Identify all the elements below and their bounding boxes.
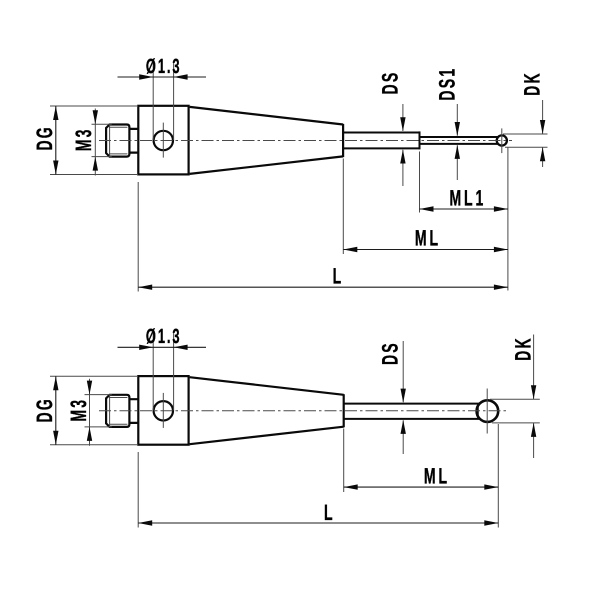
main horizontal centerline: [99, 140, 512, 142]
dimension DG line: [55, 376, 57, 445]
svg-text:ML1: ML1: [449, 185, 486, 210]
svg-text:ML: ML: [424, 464, 450, 489]
dimension M3 line: [94, 109, 96, 176]
dimension L extension line: [137, 452, 139, 528]
thread chamfer line: [109, 395, 111, 427]
neck between thread and holder: [129, 399, 138, 423]
cross hole vertical centerline: [162, 123, 164, 158]
dimension ML extension lines: [343, 429, 345, 493]
cross hole circle: [154, 401, 173, 420]
dimension L line: [138, 522, 498, 524]
dimension DK extension lines: [490, 398, 540, 400]
thin stem DS1 section: [420, 137, 498, 144]
cross hole circle: [154, 131, 173, 150]
svg-text:L: L: [324, 500, 335, 525]
holder body: [138, 376, 188, 445]
main horizontal centerline: [99, 410, 508, 412]
M3 threaded stud: [106, 395, 129, 427]
dimension Ø1.3 line: [118, 346, 207, 348]
dimension DG extension lines: [50, 375, 138, 377]
thick stem section: [343, 133, 419, 149]
dimension DS line: [402, 104, 404, 131]
svg-text:DS: DS: [378, 71, 403, 95]
svg-text:M3: M3: [66, 398, 91, 422]
dimension M3 extension lines: [92, 123, 112, 125]
dimension M3 line: [89, 379, 91, 446]
svg-text:DS1: DS1: [435, 67, 460, 101]
svg-text:Ø1.3: Ø1.3: [146, 325, 182, 348]
dimension L extension line: [137, 182, 139, 292]
thread minor diameter lines: [109, 397, 127, 399]
svg-text:DG: DG: [32, 397, 57, 422]
taper cone: [190, 107, 344, 174]
stem: [344, 404, 481, 419]
cone end face: [342, 124, 344, 157]
taper cone: [190, 377, 344, 444]
svg-text:M3: M3: [71, 127, 96, 151]
cross hole vertical centerline: [162, 393, 164, 428]
dimension Ø1.3 line: [118, 76, 207, 78]
stylus ball: [497, 135, 507, 145]
dimension L line: [138, 286, 508, 288]
dimension ML1 extension lines: [419, 152, 421, 213]
dimension Ø1.3 extension lines: [152, 333, 154, 411]
dimension DG line: [55, 106, 57, 175]
stylus ball: [477, 400, 499, 422]
svg-text:DG: DG: [32, 125, 57, 150]
dimension ML line: [344, 486, 499, 488]
svg-text:DK: DK: [511, 336, 536, 361]
svg-text:L: L: [333, 264, 344, 289]
dimension ML1 line: [420, 208, 508, 210]
dimension DG extension lines: [50, 105, 138, 107]
thread chamfer line: [109, 125, 111, 157]
ball vertical centerline: [486, 389, 488, 434]
svg-text:Ø1.3: Ø1.3: [146, 55, 182, 78]
M3 threaded stud: [106, 125, 129, 157]
holder body: [138, 106, 188, 175]
stem end flat inside ball: [477, 404, 479, 419]
dimension DK extension lines: [503, 133, 548, 135]
dimension Ø1.3 extension lines: [152, 62, 154, 140]
cone end face: [343, 394, 345, 427]
dimension DS1 line: [456, 104, 458, 136]
dimension ML line: [343, 249, 508, 251]
svg-text:DK: DK: [520, 71, 545, 96]
dimension DK line: [542, 100, 544, 134]
svg-text:ML: ML: [415, 225, 441, 250]
svg-text:DS: DS: [378, 341, 403, 365]
thread minor diameter lines: [109, 126, 127, 128]
ball vertical centerline: [501, 128, 503, 153]
dimension M3 extension lines: [85, 394, 112, 396]
dimension DS line: [402, 341, 404, 402]
neck between thread and holder: [129, 129, 138, 153]
dimension ML extension line: [342, 159, 344, 255]
dimension DK line: [533, 335, 535, 400]
stem step face: [419, 131, 421, 149]
